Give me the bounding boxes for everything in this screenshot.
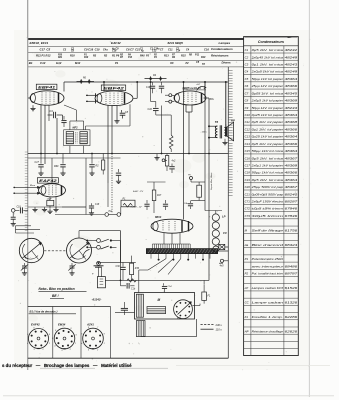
svg-text:±0µ5 trimm: ±0µ5 trimm	[252, 214, 285, 218]
wire strip to right border	[225, 246, 229, 248]
svg-text:48364: 48364	[285, 178, 298, 182]
svg-text:C16: C16	[112, 50, 117, 53]
capacitor C22 above V5	[146, 200, 148, 203]
svg-text:C1b: C1b	[131, 289, 136, 291]
svg-text:61526: 61526	[285, 286, 298, 290]
switch wiper curve	[83, 250, 90, 258]
svg-text:C71: C71	[245, 200, 251, 204]
IF transformer MF2 core	[75, 132, 77, 143]
svg-text:2x0µ5 1kV tol papier: 2x0µ5 1kV tol papier	[250, 99, 284, 103]
svg-text:EAF42: EAF42	[39, 179, 57, 183]
wire MF2 bottom leads	[69, 146, 71, 154]
svg-text:R17: R17	[157, 195, 162, 197]
switch lower contact	[97, 261, 101, 265]
wire C10 to resistor	[156, 114, 171, 116]
wire switch feed	[117, 240, 121, 242]
svg-text:EBF42: EBF42	[103, 87, 124, 91]
svg-text:230 v.: 230 v.	[215, 323, 223, 327]
terminal PV circle	[190, 177, 193, 180]
svg-text:LP: LP	[245, 286, 249, 290]
wire x86 drop from bus	[85, 158, 87, 207]
voltage selector rotary	[174, 300, 193, 319]
svg-text:C17: C17	[35, 161, 40, 164]
capacitor C8	[121, 110, 123, 113]
svg-text:68287: 68287	[285, 200, 298, 204]
svg-text:C9 C16 C10: C9 C16 C10	[84, 47, 100, 51]
svg-text:C18: C18	[95, 204, 100, 206]
legend dashed 230v	[201, 324, 214, 326]
transformer T6 core	[219, 125, 221, 138]
svg-text:48248: 48248	[285, 70, 298, 74]
header rule 2	[28, 45, 243, 47]
diode arrow 2 into V4	[14, 192, 40, 194]
wire V2 plate to MF2	[129, 104, 131, 126]
schematic bottom border	[28, 357, 229, 359]
svg-text:C18: C18	[17, 207, 22, 209]
terminal 4v with arrow	[220, 259, 223, 262]
svg-text:P1: P1	[115, 61, 119, 65]
parts table column rule part numbers	[283, 46, 285, 356]
svg-text:C10: C10	[245, 113, 251, 117]
transformer T6 secondary	[224, 127, 226, 135]
svg-text:2x9µF 150V électro: 2x9µF 150V électro	[250, 200, 283, 204]
svg-text:Résistance chauffage: Résistance chauffage	[252, 329, 284, 333]
svg-text:C5: C5	[245, 77, 249, 81]
dial lamp LP4	[212, 238, 219, 245]
svg-text:4: 4	[27, 342, 28, 345]
terminal strip pins below	[151, 254, 210, 259]
svg-text:T6: T6	[215, 120, 219, 124]
svg-text:4: 4	[81, 342, 82, 345]
wire mid bus 2	[28, 157, 121, 159]
svg-text:Pot. tonalité haut inter: Pot. tonalité haut inter	[252, 272, 285, 276]
switch contact row 1	[86, 240, 88, 242]
dial lamp LP3	[212, 230, 219, 237]
svg-text:4v2: 4v2	[172, 160, 177, 163]
socket panel top rule	[28, 306, 111, 308]
svg-text:P13: P13	[128, 57, 133, 59]
svg-text:0µ5 1kV. tol mica: 0µ5 1kV. tol mica	[252, 156, 284, 160]
svg-text:48366: 48366	[285, 84, 298, 88]
fuse F1	[202, 292, 207, 300]
parts table row entries	[245, 48, 298, 333]
svg-text:2x0µ5 1kV tol mica: 2x0µ5 1kV tol mica	[250, 70, 283, 74]
svg-text:C3: C3	[245, 63, 249, 67]
svg-text:Divers: Divers	[222, 61, 232, 65]
paper speckle noise	[14, 30, 312, 370]
wire strip pins diagonals	[148, 259, 166, 270]
header rule 3	[28, 52, 243, 54]
legend solid 110v	[201, 328, 214, 330]
svg-text:CC: CC	[223, 231, 227, 235]
svg-text:C1: C1	[245, 48, 249, 52]
svg-text:48364: 48364	[285, 113, 298, 117]
svg-text:P20: P20	[58, 55, 63, 57]
svg-text:4: 4	[54, 345, 55, 348]
svg-text:M: M	[158, 298, 161, 302]
svg-text:0µ25 1kV tol papier: 0µ25 1kV tol papier	[252, 135, 285, 139]
capacitor C11	[118, 169, 120, 172]
svg-text:Potentiomètre 25kΩ: Potentiomètre 25kΩ	[252, 257, 283, 261]
svg-text:M12: M12	[75, 61, 81, 65]
resistor R1 on top bus	[77, 81, 95, 83]
svg-text:s du récepteur — Brochage: s du récepteur — Brochage des lampes — M…	[2, 363, 132, 368]
ground antenna	[12, 221, 14, 223]
wire x209 lower	[208, 154, 210, 281]
svg-text:C11: C11	[245, 120, 250, 124]
dial lamp LP2	[212, 222, 219, 229]
svg-text:C30: C30	[116, 266, 121, 268]
svg-text:C15: C15	[245, 149, 251, 153]
svg-text:48366: 48366	[285, 127, 298, 131]
wire V3 pins down	[185, 105, 187, 112]
resistor R17 above V5	[153, 182, 155, 190]
wire V3 grid pins	[169, 94, 172, 97]
svg-text:48368: 48368	[285, 99, 298, 103]
svg-text:H12: H12	[56, 61, 62, 65]
wire CV2 top to bus	[78, 231, 80, 238]
svg-text:48368: 48368	[285, 120, 298, 124]
wire gang feed lines	[16, 225, 32, 227]
ground speaker	[224, 139, 226, 140]
ground V1 cathode	[32, 105, 34, 106]
switch contact row 2	[86, 246, 88, 248]
terminal strip bar	[146, 249, 217, 254]
svg-text:C14: C14	[245, 142, 251, 146]
capacitor C6 below V1	[63, 116, 65, 120]
wire right column x209	[208, 98, 210, 154]
socket panel divider 1	[52, 307, 54, 359]
svg-text:-61342-: -61342-	[92, 298, 102, 302]
trimmer CT1	[24, 263, 26, 265]
wire transformer bottom out	[141, 336, 197, 338]
svg-text:62286: 62286	[285, 315, 298, 319]
svg-text:C12: C12	[245, 127, 251, 131]
resistor R30	[130, 263, 134, 274]
svg-text:+HT: +HT	[196, 84, 201, 86]
resistor R13 zigzag	[169, 135, 173, 149]
svg-text:LP: LP	[222, 215, 226, 219]
svg-text:2x0µ1 1kV tol papier: 2x0µ1 1kV tol papier	[250, 163, 284, 167]
wire lamps top	[215, 211, 217, 214]
terminal 4v2 circle	[162, 159, 165, 162]
svg-text:C8: C8	[245, 99, 249, 103]
svg-text:C14: C14	[176, 50, 181, 53]
capacitor C14	[171, 164, 173, 167]
diode arrow 1 into V4	[14, 186, 40, 188]
wire V4 pins down	[49, 197, 51, 201]
wire lamp chain	[215, 220, 217, 223]
left page fold line	[27, 0, 29, 370]
svg-text:Depuis Bloc, Blanc: Depuis Bloc, Blanc	[211, 172, 213, 190]
svg-text:C20: C20	[245, 185, 251, 189]
svg-text:HP: HP	[245, 329, 249, 333]
svg-text:ωω: ωω	[177, 316, 181, 319]
paper mottling blobs	[28, 52, 256, 322]
wire bus drop to C10	[150, 82, 152, 102]
svg-text:+: +	[92, 272, 94, 276]
svg-text:68324: 68324	[285, 243, 298, 247]
svg-text:0µ25 1kV tol papier: 0µ25 1kV tol papier	[252, 113, 285, 117]
svg-text:25µµ 1kV. tol papier: 25µµ 1kV. tol papier	[250, 84, 284, 88]
svg-text:P11: P11	[195, 54, 200, 57]
svg-text:C6 C7 C21: C6 C7 C21	[126, 47, 141, 51]
svg-text:R1 P6: R1 P6	[112, 54, 120, 58]
tube V4 EAF42	[39, 184, 66, 197]
capacitor antenna shunt	[12, 212, 14, 217]
svg-text:R11 P1 R12: R11 P1 R12	[36, 54, 51, 58]
svg-text:Lampe cadran: Lampe cadran	[252, 300, 284, 304]
svg-text:C16: C16	[245, 156, 251, 160]
capacitor C19 mid	[91, 154, 93, 164]
svg-text:48367: 48367	[285, 185, 298, 189]
parts table header box rule	[244, 45, 299, 47]
wire y280 bus	[101, 279, 228, 281]
svg-text:C4: C4	[245, 70, 249, 74]
svg-text:C73: C73	[245, 214, 251, 218]
socket panel right edge	[110, 307, 112, 359]
wire V5 top	[183, 216, 185, 220]
svg-text:C4a: C4a	[103, 48, 108, 51]
wire V3 anode up to bus	[204, 82, 206, 96]
svg-text:C17 C5: C17 C5	[40, 47, 51, 51]
wire x120 into psu	[120, 262, 122, 280]
svg-text:180v: 180v	[209, 98, 215, 101]
transformer heater winding horizontal	[147, 307, 166, 314]
svg-text:48243: 48243	[285, 63, 298, 67]
wire selector out	[192, 305, 194, 307]
svg-text:61756: 61756	[285, 228, 298, 232]
capacitor C2 at box top	[163, 283, 165, 285]
resistor R4	[145, 78, 167, 80]
svg-text:→110 v: →110 v	[199, 132, 207, 134]
svg-text:R21: R21	[58, 57, 63, 59]
transformer secondary winding below	[136, 321, 145, 337]
svg-text:48364: 48364	[285, 77, 298, 81]
PU terminal pair	[55, 214, 105, 216]
svg-text:Ha: Ha	[245, 243, 249, 247]
svg-text:Lampes: Lampes	[219, 41, 231, 45]
capacitor C4a	[190, 201, 192, 204]
wire MF2 to bus	[75, 110, 77, 121]
transformer primary winding	[136, 294, 143, 317]
svg-text:HP: HP	[231, 119, 235, 123]
svg-text:EAF42: EAF42	[111, 41, 121, 45]
gang dashed link	[44, 250, 66, 252]
wire V2 top lead to bus	[103, 82, 105, 92]
svg-text:Nota:- Bloc en position: Nota:- Bloc en position	[39, 287, 75, 291]
svg-text:C19: C19	[245, 178, 251, 182]
svg-text:R10: R10	[201, 56, 206, 59]
svg-text:avec interrupteur: avec interrupteur	[252, 264, 285, 268]
svg-text:6v60' - PV: 6v60' - PV	[133, 191, 144, 193]
hatched capacitor pair left of box	[121, 307, 128, 309]
wire transformer right to border	[195, 308, 229, 310]
capacitor C17	[40, 154, 42, 164]
svg-text:0µ5 1kV. tol mica: 0µ5 1kV. tol mica	[252, 48, 284, 52]
svg-text:R10: R10	[84, 57, 89, 59]
svg-text:F1: F1	[245, 315, 249, 319]
tone pot P1 box	[121, 200, 135, 207]
svg-text:Condensateurs: Condensateurs	[211, 47, 233, 51]
svg-text:B1: B1	[29, 61, 33, 65]
svg-text:1: 1	[75, 343, 76, 345]
svg-text:2x0µ45 1kV tol mica: 2x0µ45 1kV tol mica	[250, 55, 283, 59]
svg-text:EBF41: EBF41	[38, 86, 55, 90]
svg-text:50µµ 1kV. tol papier: 50µµ 1kV. tol papier	[252, 106, 285, 110]
svg-text:50µµ 1kV tol mica: 50µµ 1kV tol mica	[252, 171, 284, 175]
ground C17	[40, 171, 42, 173]
wire T6 primary leads	[209, 125, 217, 127]
svg-text:48248: 48248	[285, 55, 298, 59]
svg-text:48366: 48366	[285, 171, 298, 175]
header bottom rule	[28, 66, 243, 68]
svg-text:50µµ 1kV tol papier: 50µµ 1kV tol papier	[252, 77, 285, 81]
svg-text:48368: 48368	[285, 163, 298, 167]
svg-text:6241 6BQ5: 6241 6BQ5	[168, 41, 184, 45]
svg-text:BE !: BE !	[52, 294, 59, 298]
svg-text:EAF42: EAF42	[31, 323, 40, 327]
svg-text:±0µ5 ±5% trimm: ±0µ5 ±5% trimm	[252, 207, 284, 211]
svg-text:C17: C17	[245, 163, 251, 167]
ground R13	[156, 154, 158, 156]
svg-text:C18: C18	[245, 171, 251, 175]
svg-text:R40: R40	[140, 55, 145, 58]
capacitor C18b	[91, 203, 93, 205]
socket panel divider 2	[80, 307, 82, 359]
svg-text:AZ41: AZ41	[86, 323, 94, 327]
resistor R40 vertical	[165, 156, 168, 167]
svg-text:P1: P1	[245, 257, 249, 261]
tube V4 EAF42 label box	[37, 178, 58, 183]
ground row under V4	[34, 207, 36, 209]
wire psu to transformer box	[150, 259, 152, 264]
bottom page shadow line	[3, 395, 334, 397]
tube V2 EBF42 label box	[101, 85, 125, 91]
svg-text:C21: C21	[245, 192, 251, 196]
IF transformer MF2 winding 2	[80, 132, 87, 144]
wire mid bus	[28, 153, 229, 155]
wire V1 left lead	[28, 97, 30, 99]
svg-text:68486: 68486	[285, 264, 298, 268]
electrolytic C50	[97, 277, 105, 288]
wire x183 long drop	[183, 82, 185, 216]
header top rule	[28, 38, 243, 40]
svg-text:67846: 67846	[285, 214, 298, 218]
svg-text:C16: C16	[146, 87, 151, 89]
wire x205 plate supply drop	[204, 82, 206, 211]
wire bus left drop	[63, 82, 65, 92]
svg-text:C13: C13	[245, 135, 251, 139]
svg-text:0µ05+0µ5 500V pap: 0µ05+0µ5 500V pap	[252, 192, 284, 196]
wire pot to PU	[99, 203, 122, 207]
parts table column rule designators	[250, 46, 252, 356]
wire R17 top tee	[147, 181, 166, 183]
wire C4 to V2 column	[62, 115, 64, 120]
svg-text:B1 ( Vue de dessous ): B1 ( Vue de dessous )	[30, 309, 58, 313]
ground V2	[116, 119, 118, 121]
wire plate V3 to output transformer	[225, 82, 227, 127]
transformer box	[135, 293, 195, 320]
svg-text:C7: C7	[245, 91, 249, 95]
parts table outer frame	[244, 37, 299, 356]
tube V1 EBF41 label box	[36, 84, 57, 89]
svg-text:6C: 6C	[170, 61, 173, 65]
svg-text:C6: C6	[245, 84, 249, 88]
+HT curved arrow	[197, 87, 206, 91]
svg-text:6BV4: 6BV4	[155, 216, 162, 219]
tube V5 6V4	[151, 219, 193, 233]
svg-text:0µ1 1kV. tol mica: 0µ1 1kV. tol mica	[252, 63, 284, 67]
resistor Rk loop	[197, 185, 202, 197]
capacitor antenna series	[15, 209, 19, 211]
svg-text:Condensateurs: Condensateurs	[258, 40, 284, 44]
svg-text:0µ5 1kV. tol mica: 0µ5 1kV. tol mica	[252, 178, 284, 182]
wire from grounds to PU	[85, 207, 87, 215]
IF transformer MF2 winding 1	[66, 132, 73, 144]
svg-text:50µµ 1kV tol mica: 50µµ 1kV tol mica	[252, 149, 284, 153]
wire V2 pins down	[107, 105, 109, 183]
wire top bus	[64, 81, 228, 83]
parts table corner tick	[288, 36, 292, 39]
tube V1 EBF41	[30, 91, 64, 105]
schematic left border hatch	[25, 152, 28, 230]
svg-text:Bloc d'accord: Bloc d'accord	[252, 243, 284, 247]
svg-text:C72: C72	[245, 207, 251, 211]
svg-text:Lampes cadran 6V3: Lampes cadran 6V3	[252, 286, 284, 290]
dial lamp LP5	[213, 246, 219, 252]
svg-text:C2: C2	[245, 55, 249, 59]
wire y262 bus	[97, 261, 136, 263]
parts table row rules	[244, 53, 299, 349]
svg-text:R18: R18	[70, 55, 75, 58]
svg-text:Self de filtrage: Self de filtrage	[252, 228, 284, 232]
svg-text:12µF: 12µF	[47, 199, 53, 201]
transformer T6 primary	[215, 126, 217, 138]
svg-text:68787: 68787	[285, 272, 298, 276]
schematic right border	[227, 67, 229, 358]
wire V1 pins down	[40, 105, 42, 154]
wire top of V4 to bus	[51, 158, 53, 184]
svg-text:PU: PU	[109, 211, 113, 213]
svg-text:68240: 68240	[285, 192, 298, 196]
variable capacitor CV2	[67, 238, 92, 263]
svg-text:110 v.: 110 v.	[216, 327, 223, 331]
svg-text:48242: 48242	[285, 48, 298, 52]
wire x108 drop	[107, 183, 109, 215]
svg-text:4v5: 4v5	[220, 265, 225, 268]
svg-text:C16: C16	[204, 47, 209, 51]
svg-text:P2: P2	[245, 272, 249, 276]
capacitor C10	[155, 102, 157, 108]
wire MF2 top leads	[69, 121, 71, 130]
svg-text:Résistances: Résistances	[211, 53, 229, 57]
antenna terminal	[11, 209, 15, 213]
svg-text:R30: R30	[135, 268, 140, 270]
svg-text:C11: C11	[168, 47, 173, 51]
dial lamp LP1	[212, 214, 219, 221]
svg-text:48367: 48367	[285, 156, 298, 160]
svg-text:Fusible 1 Amp.: Fusible 1 Amp.	[252, 315, 284, 319]
capacitor C16 pair	[152, 82, 154, 85]
wire border drop right	[227, 253, 229, 358]
svg-text:25µµ 500V tol pap: 25µµ 500V tol pap	[250, 185, 283, 189]
svg-text:EBF42 EF41: EBF42 EF41	[30, 41, 49, 45]
svg-text:1: 1	[49, 343, 50, 345]
svg-text:C10: C10	[148, 108, 153, 111]
capacitor C5a on mid bus	[62, 154, 64, 164]
electrolytic C12 block	[47, 200, 54, 205]
